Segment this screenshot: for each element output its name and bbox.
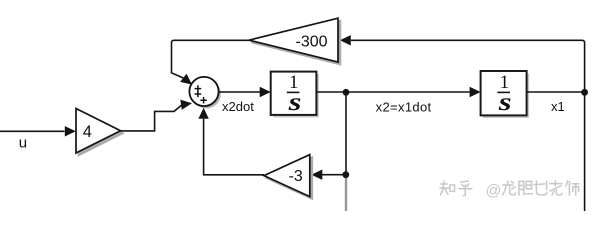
arrowhead into I1 <box>260 87 271 97</box>
wire node x1 up and across top <box>351 40 585 92</box>
svg-text:x2=x1dot: x2=x1dot <box>376 100 432 115</box>
wire node x1 down to edge <box>584 92 586 211</box>
watermark char 乎 <box>459 181 472 196</box>
svg-text:x2dot: x2dot <box>222 99 254 114</box>
gain G2 -300 <box>249 18 338 62</box>
I1 fraction bar <box>287 91 300 93</box>
integrator I2 box <box>481 71 527 115</box>
wire input u <box>0 130 65 132</box>
wire -300 to sum input 1 <box>172 40 250 78</box>
arrowhead into I2 <box>470 87 481 97</box>
svg-text:s: s <box>498 89 512 116</box>
gain G3 -3 shadow <box>267 157 313 199</box>
junction node x1 <box>581 89 588 96</box>
sum S1 shadow <box>192 79 221 108</box>
wire node feedback down to edge (faded) <box>345 178 347 211</box>
wire I2 to node x1 <box>527 91 585 93</box>
sum sign + port2 <box>195 91 202 98</box>
watermark char 老 <box>550 181 563 195</box>
integrator I2 shadow <box>483 74 529 118</box>
wire gain 4 to sum input 2 <box>121 105 182 131</box>
arrowhead into -300 <box>340 35 351 45</box>
svg-text:-3: -3 <box>289 168 303 185</box>
arrowhead sum input 1 <box>180 74 195 89</box>
arrowhead into -3 <box>311 170 322 180</box>
gain G1 value 4 shadow <box>79 111 124 156</box>
arrowhead sum input 2 <box>180 98 192 110</box>
svg-text:x1: x1 <box>551 99 565 114</box>
watermark 知乎 @龙胆也老师 (vector strokes) <box>440 181 579 200</box>
sum S1 circle <box>189 77 218 106</box>
svg-text:@: @ <box>486 182 502 199</box>
watermark char 龙 <box>503 181 516 195</box>
arrowhead sum input 3 <box>198 108 208 119</box>
sum sign + port3 <box>200 97 207 104</box>
junction node x2 <box>343 89 350 96</box>
I2 denominator s <box>498 89 512 116</box>
wire node x2 down <box>345 92 347 178</box>
wire node to -3 <box>322 174 347 176</box>
integrator I1 shadow <box>273 74 319 117</box>
integrator I1 box <box>271 72 317 115</box>
watermark char 胆 <box>519 181 532 195</box>
svg-text:4: 4 <box>83 123 92 141</box>
wire -3 to sum input 3 <box>204 119 264 175</box>
gain G3 -3 <box>264 155 310 197</box>
wire I1 to I2 <box>316 91 469 93</box>
watermark char 也 <box>534 181 547 195</box>
svg-text:u: u <box>19 135 27 152</box>
gain G1 value 4 <box>76 109 121 154</box>
I1 denominator s <box>287 89 301 116</box>
arrowhead into gain 4 <box>65 126 76 136</box>
gain G2 -300 shadow <box>251 21 340 65</box>
sum sign + port1 <box>195 85 202 92</box>
svg-text:-300: -300 <box>295 33 327 50</box>
svg-text:s: s <box>287 89 301 116</box>
watermark char 师 <box>566 181 579 195</box>
watermark char 知 <box>440 181 455 195</box>
wire sum to integrator I1 <box>219 91 262 93</box>
junction node feedback <box>342 171 349 178</box>
I2 fraction bar <box>497 91 510 93</box>
